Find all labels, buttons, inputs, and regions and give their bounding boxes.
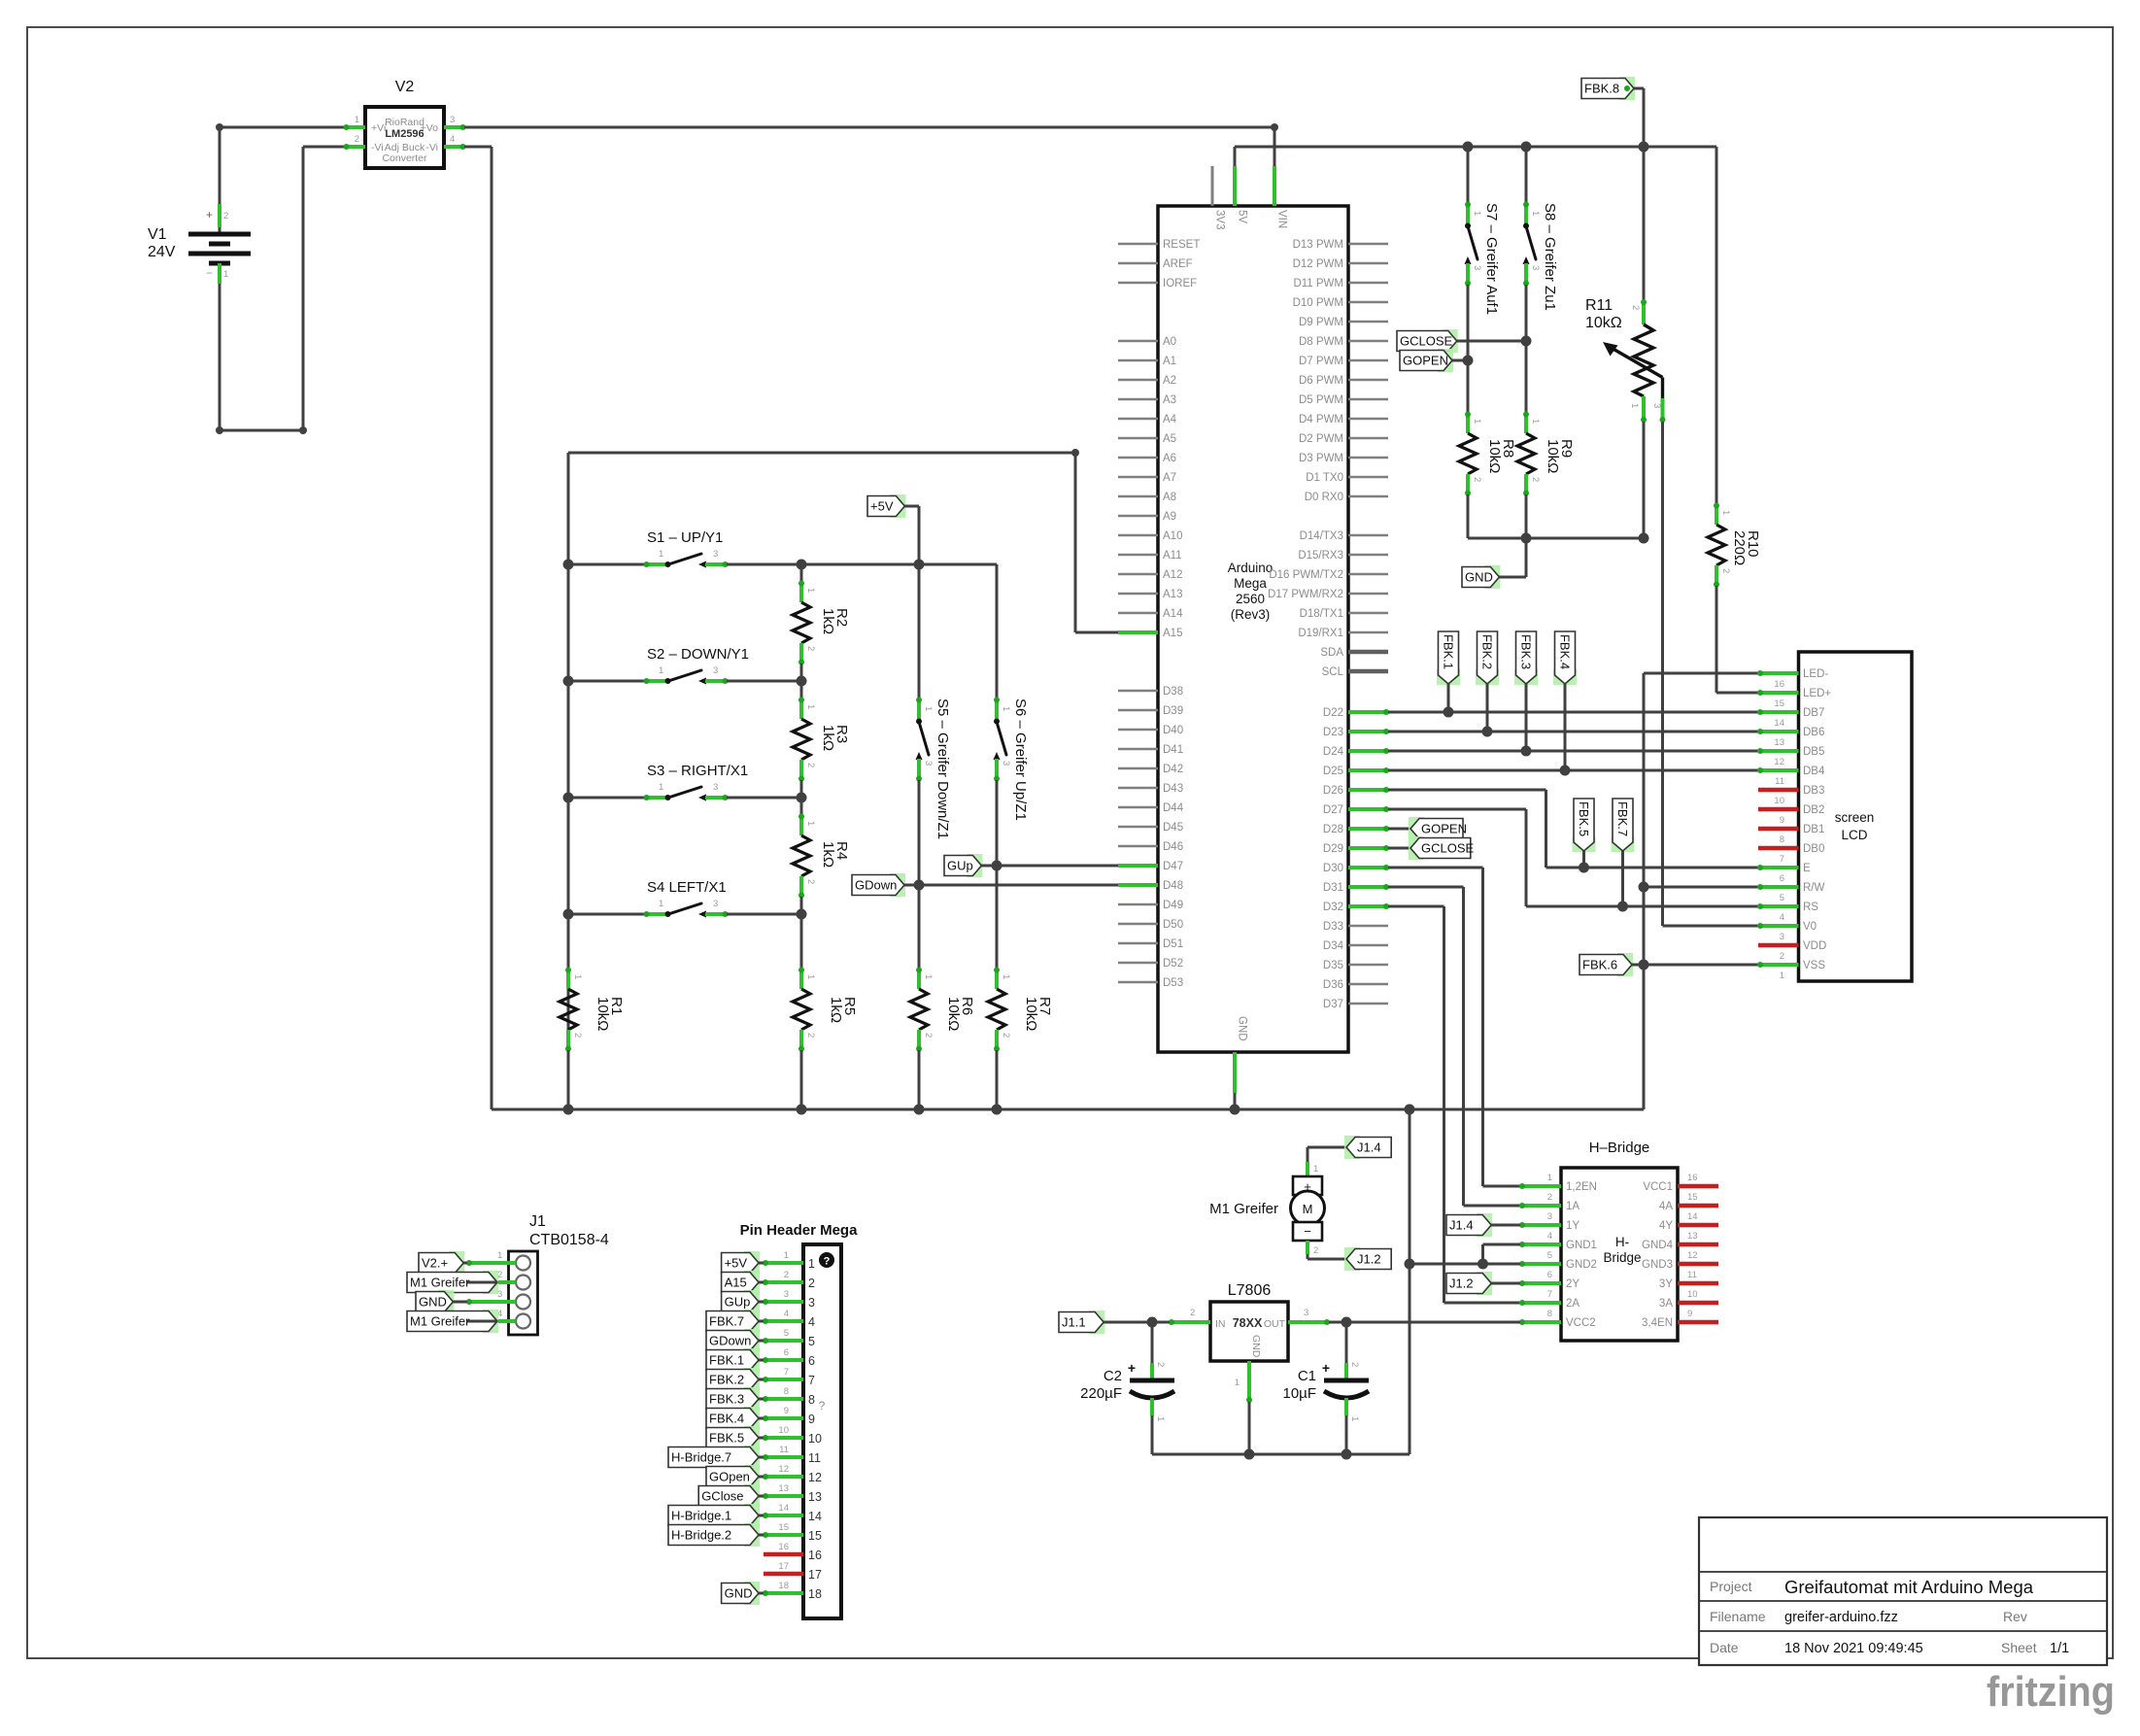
- Pin Header pin 3 GUp: [722, 1289, 815, 1313]
- svg-text:1: 1: [784, 1250, 789, 1261]
- svg-text:V2: V2: [395, 79, 415, 95]
- svg-text:2Y: 2Y: [1566, 1278, 1580, 1290]
- svg-text:D2 PWM: D2 PWM: [1299, 433, 1343, 445]
- svg-text:11: 11: [1775, 776, 1784, 787]
- svg-text:3: 3: [1472, 265, 1482, 270]
- switch S3 - RIGHT/X1: [563, 763, 807, 803]
- wire D32 to H-Bridge 2A: [1388, 906, 1520, 1303]
- resistor R10 220: [1708, 147, 1761, 588]
- svg-text:15: 15: [1687, 1192, 1698, 1203]
- svg-text:A5: A5: [1163, 433, 1176, 445]
- svg-text:DB7: DB7: [1803, 707, 1824, 719]
- Arduino pin A9: [1118, 511, 1176, 523]
- H-Bridge pin 7 2A: [1519, 1289, 1580, 1310]
- H-Bridge pin 5 GND2: [1519, 1250, 1597, 1271]
- svg-text:2: 2: [1780, 951, 1784, 962]
- svg-text:D53: D53: [1163, 977, 1183, 989]
- svg-text:11: 11: [808, 1451, 821, 1465]
- svg-text:FBK.5: FBK.5: [1577, 801, 1591, 836]
- Pin Header pin 16: [764, 1542, 822, 1562]
- svg-text:A4: A4: [1163, 414, 1177, 425]
- net label FBK.5: [1573, 799, 1596, 868]
- H-Bridge pin 8 VCC2: [1519, 1309, 1596, 1329]
- svg-text:3: 3: [713, 549, 718, 560]
- svg-text:A8: A8: [1163, 492, 1176, 503]
- svg-text:2: 2: [1349, 1362, 1360, 1367]
- Arduino pin D39: [1118, 705, 1183, 717]
- svg-text:1: 1: [1349, 1416, 1360, 1421]
- svg-text:GND: GND: [1465, 570, 1493, 585]
- svg-text:A7: A7: [1163, 472, 1176, 484]
- svg-text:1kΩ: 1kΩ: [820, 608, 836, 634]
- wire GDown junction to Arduino D48: [919, 884, 1118, 887]
- buck converter V2 RioRand LM2596: [324, 79, 485, 168]
- svg-text:M: M: [1303, 1202, 1313, 1216]
- svg-text:6: 6: [1547, 1270, 1552, 1280]
- Arduino pin D27: [1323, 804, 1389, 816]
- svg-text:M1 Greifer: M1 Greifer: [1209, 1201, 1278, 1217]
- svg-text:1: 1: [1720, 510, 1731, 515]
- svg-text:(Rev3): (Rev3): [1231, 607, 1271, 622]
- svg-text:V0: V0: [1803, 921, 1817, 933]
- ground bus wire: [492, 1105, 1644, 1115]
- svg-text:FBK.7: FBK.7: [1615, 801, 1630, 836]
- svg-text:S1 – UP/Y1: S1 – UP/Y1: [647, 529, 723, 546]
- svg-text:3V3: 3V3: [1214, 210, 1226, 229]
- Arduino pin D15/RX3: [1298, 550, 1388, 562]
- svg-text:3: 3: [784, 1289, 789, 1300]
- svg-text:16: 16: [778, 1542, 789, 1552]
- svg-text:18 Nov 2021 09:49:45: 18 Nov 2021 09:49:45: [1784, 1641, 1923, 1656]
- wire GUp junction to Arduino D47: [997, 865, 1118, 868]
- svg-text:2A: 2A: [1566, 1298, 1580, 1310]
- svg-text:D40: D40: [1163, 725, 1183, 736]
- svg-text:?: ?: [819, 1399, 826, 1413]
- Arduino pin D7 PWM: [1299, 356, 1388, 367]
- svg-text:D22: D22: [1323, 707, 1343, 719]
- svg-text:IN: IN: [1215, 1318, 1226, 1330]
- svg-text:16: 16: [808, 1549, 822, 1562]
- svg-text:S3 – RIGHT/X1: S3 – RIGHT/X1: [647, 763, 748, 779]
- svg-text:24V: 24V: [148, 244, 176, 260]
- svg-text:D11 PWM: D11 PWM: [1293, 278, 1343, 289]
- resistor R4 1k: [793, 798, 850, 914]
- svg-text:FBK.6: FBK.6: [1582, 958, 1617, 972]
- svg-text:8: 8: [1780, 834, 1784, 845]
- Arduino pin A14: [1118, 608, 1183, 620]
- svg-text:2: 2: [1313, 1245, 1318, 1256]
- Arduino pin A15: [1118, 628, 1182, 639]
- svg-text:RioRand: RioRand: [385, 117, 425, 128]
- svg-text:3A: 3A: [1659, 1298, 1673, 1310]
- Arduino pin A0: [1118, 336, 1176, 348]
- resistor R6 10k: [910, 968, 975, 1110]
- wire battery plus to V2 +Vi: [216, 123, 324, 131]
- Arduino pin D13 PWM: [1293, 239, 1388, 251]
- svg-text:GND2: GND2: [1566, 1259, 1597, 1271]
- Arduino pin D50: [1118, 919, 1183, 931]
- Arduino pin D42: [1118, 764, 1183, 775]
- net label GCLOSE (D29): [1388, 836, 1475, 860]
- svg-text:greifer-arduino.fzz: greifer-arduino.fzz: [1784, 1610, 1898, 1625]
- svg-text:3: 3: [1530, 265, 1541, 270]
- svg-text:D49: D49: [1163, 900, 1183, 911]
- wire 5V rail from Arduino 5V to R10: [1235, 142, 1716, 167]
- svg-text:D31: D31: [1323, 882, 1343, 894]
- Arduino pin D34: [1323, 940, 1388, 952]
- svg-text:J1.1: J1.1: [1062, 1315, 1086, 1330]
- svg-text:AREF: AREF: [1163, 258, 1193, 270]
- switch S5 - Greifer Down/Z1: [916, 564, 952, 839]
- Arduino pin D14/TX3: [1300, 530, 1388, 542]
- wire S7 to GOPEN junction and R8: [1463, 285, 1474, 413]
- svg-text:J1: J1: [529, 1213, 546, 1230]
- H-Bridge pin 13 GND4: [1642, 1231, 1718, 1251]
- svg-text:3: 3: [713, 782, 718, 793]
- Arduino pin D40: [1118, 725, 1183, 736]
- wire LCD LED- to ground chain: [1639, 673, 1759, 1109]
- svg-text:V2.+: V2.+: [422, 1256, 448, 1271]
- connector J1 CTB0158-4: [466, 1213, 609, 1335]
- Arduino pin D8 PWM: [1299, 336, 1388, 348]
- svg-text:1: 1: [923, 974, 934, 979]
- svg-text:1: 1: [1235, 1378, 1240, 1388]
- svg-text:LED-: LED-: [1803, 668, 1828, 680]
- svg-text:+5V: +5V: [870, 499, 894, 514]
- svg-text:4: 4: [1547, 1231, 1552, 1242]
- svg-text:GND1: GND1: [1566, 1240, 1597, 1251]
- svg-text:220Ω: 220Ω: [1731, 530, 1748, 565]
- svg-text:1: 1: [805, 821, 816, 826]
- voltage regulator L7806: [1169, 1282, 1330, 1403]
- svg-text:2: 2: [805, 646, 816, 651]
- svg-text:VDD: VDD: [1803, 940, 1826, 952]
- Pin Header pin 8 FBK.3: [706, 1386, 815, 1411]
- LCD screen box: [1799, 652, 1913, 981]
- Pin Header pin 18 GND: [722, 1581, 822, 1605]
- svg-text:J1.2: J1.2: [1357, 1252, 1381, 1267]
- svg-text:D24: D24: [1323, 746, 1344, 758]
- svg-text:RESET: RESET: [1163, 239, 1200, 251]
- Arduino pin D1 TX0: [1306, 472, 1388, 484]
- svg-text:D19/RX1: D19/RX1: [1298, 628, 1343, 639]
- svg-text:S7 – Greifer Auf1: S7 – Greifer Auf1: [1483, 203, 1500, 315]
- Arduino pin D22: [1323, 707, 1389, 719]
- svg-text:13: 13: [778, 1483, 789, 1494]
- Arduino pin D35: [1323, 960, 1388, 971]
- svg-text:D43: D43: [1163, 783, 1183, 795]
- Pin Header pin 9 FBK.4: [706, 1406, 815, 1430]
- svg-text:RS: RS: [1803, 902, 1818, 913]
- svg-text:D16 PWM/TX2: D16 PWM/TX2: [1269, 569, 1343, 581]
- svg-text:GND: GND: [1237, 1016, 1248, 1041]
- svg-text:A12: A12: [1163, 569, 1182, 581]
- svg-text:1,2EN: 1,2EN: [1566, 1181, 1597, 1193]
- resistor R1 10k: [560, 914, 625, 1109]
- net label GUp: [944, 854, 997, 877]
- svg-text:A3: A3: [1163, 394, 1176, 406]
- svg-text:C2: C2: [1104, 1368, 1122, 1384]
- svg-text:3Y: 3Y: [1659, 1278, 1673, 1290]
- H-Bridge pin 11 3Y: [1659, 1270, 1718, 1290]
- wire R11 pin1 to bottom node: [1643, 422, 1646, 538]
- LCD pin 4 RS: [1757, 902, 1818, 923]
- svg-text:FBK.5: FBK.5: [709, 1431, 744, 1446]
- svg-text:Mega: Mega: [1234, 576, 1267, 591]
- svg-text:10kΩ: 10kΩ: [1023, 997, 1039, 1031]
- net label J1.4 (1Y): [1446, 1213, 1520, 1237]
- Arduino pin A3: [1118, 394, 1176, 406]
- Arduino pin D37: [1323, 999, 1388, 1010]
- svg-text:FBK.2: FBK.2: [709, 1373, 744, 1387]
- svg-text:2: 2: [1720, 568, 1731, 573]
- Pin Header pin 17: [764, 1561, 822, 1582]
- svg-text:D37: D37: [1323, 999, 1343, 1010]
- Arduino pin D44: [1118, 802, 1184, 814]
- svg-text:M1 Greifer: M1 Greifer: [410, 1314, 470, 1329]
- LCD pin 2 VDD: [1758, 940, 1826, 962]
- svg-text:D30: D30: [1323, 863, 1343, 874]
- Arduino pin A7: [1118, 472, 1176, 484]
- svg-text:GOpen: GOpen: [709, 1470, 750, 1484]
- svg-text:A2: A2: [1163, 375, 1176, 387]
- svg-text:?: ?: [824, 1256, 831, 1268]
- Arduino pin D51: [1118, 938, 1183, 950]
- svg-text:220µF: 220µF: [1080, 1385, 1122, 1402]
- svg-text:FBK.1: FBK.1: [1441, 634, 1455, 669]
- svg-text:5V: 5V: [1237, 210, 1248, 223]
- svg-text:Arduino: Arduino: [1228, 561, 1274, 575]
- svg-text:H-Bridge.1: H-Bridge.1: [671, 1509, 731, 1523]
- wire D24 to LCD DB5: [1388, 746, 1758, 757]
- svg-text:D38: D38: [1163, 686, 1183, 698]
- Arduino pin D38: [1118, 686, 1183, 698]
- svg-text:FBK.4: FBK.4: [1557, 634, 1572, 669]
- svg-text:VCC2: VCC2: [1566, 1317, 1596, 1329]
- svg-text:14: 14: [778, 1503, 789, 1514]
- wire R8 R9 R11 bottom node: [1468, 494, 1649, 577]
- svg-text:R/W: R/W: [1803, 882, 1825, 894]
- svg-text:2: 2: [1547, 1192, 1552, 1203]
- wire D22 to LCD DB7: [1388, 707, 1758, 718]
- H-Bridge box: [1561, 1140, 1678, 1341]
- switch S4 LEFT/X1: [563, 879, 807, 920]
- Arduino pin D12 PWM: [1293, 258, 1388, 270]
- switch S8 - Greifer Zu1: [1523, 147, 1559, 311]
- svg-text:1A: 1A: [1566, 1201, 1580, 1212]
- svg-text:D39: D39: [1163, 705, 1183, 717]
- svg-text:2: 2: [923, 1033, 934, 1038]
- svg-text:12: 12: [1687, 1250, 1698, 1261]
- svg-text:10kΩ: 10kΩ: [1585, 315, 1622, 331]
- Arduino pin D19/RX1: [1298, 628, 1388, 639]
- svg-text:LM2596: LM2596: [385, 128, 424, 140]
- svg-text:Date: Date: [1710, 1640, 1739, 1655]
- svg-text:Filename: Filename: [1710, 1609, 1766, 1624]
- svg-text:H-Bridge.2: H-Bridge.2: [671, 1528, 731, 1543]
- svg-text:15: 15: [1774, 698, 1784, 709]
- svg-text:GND: GND: [725, 1586, 753, 1601]
- svg-text:5: 5: [1547, 1250, 1552, 1261]
- svg-text:1: 1: [1629, 403, 1640, 408]
- Arduino pin A6: [1118, 453, 1176, 464]
- svg-text:1kΩ: 1kΩ: [820, 841, 836, 868]
- svg-text:D35: D35: [1323, 960, 1343, 971]
- svg-text:DB0: DB0: [1803, 843, 1824, 855]
- Arduino pin A2: [1118, 375, 1176, 387]
- wire D30 to H-Bridge 1,2EN: [1388, 868, 1520, 1186]
- svg-text:Greifautomat mit Arduino Mega: Greifautomat mit Arduino Mega: [1784, 1577, 2034, 1597]
- svg-text:2: 2: [223, 211, 228, 221]
- Pin Header pin 1 +5V: [722, 1250, 815, 1275]
- Arduino pin D32: [1323, 902, 1389, 913]
- svg-text:GCLOSE: GCLOSE: [1400, 334, 1453, 349]
- svg-text:1: 1: [223, 269, 228, 280]
- svg-text:1: 1: [1313, 1164, 1318, 1174]
- svg-text:3: 3: [450, 115, 455, 125]
- potentiometer R11 10k: [1585, 147, 1666, 423]
- svg-text:1: 1: [659, 899, 663, 909]
- LCD pin 10 DB3: [1758, 785, 1824, 806]
- svg-text:6: 6: [784, 1347, 789, 1358]
- svg-text:A6: A6: [1163, 453, 1176, 464]
- svg-text:D14/TX3: D14/TX3: [1300, 530, 1343, 542]
- net label GDown: [852, 873, 919, 897]
- svg-text:1: 1: [1530, 211, 1541, 216]
- Arduino pin D9 PWM: [1299, 317, 1388, 328]
- wire S8 to GCLOSE junction and R9: [1521, 285, 1532, 413]
- svg-text:+: +: [206, 208, 213, 221]
- svg-text:2: 2: [1001, 1033, 1011, 1038]
- Arduino pin D6 PWM: [1299, 375, 1388, 387]
- net label FBK.6: [1580, 953, 1644, 976]
- svg-text:DB2: DB2: [1803, 804, 1824, 816]
- svg-text:GClose: GClose: [701, 1489, 743, 1504]
- resistor R8 10k: [1459, 412, 1516, 496]
- LCD pin 13 DB6: [1757, 727, 1824, 748]
- svg-text:10kΩ: 10kΩ: [1486, 439, 1503, 473]
- svg-text:VSS: VSS: [1803, 960, 1825, 971]
- svg-text:16: 16: [1774, 679, 1784, 690]
- LCD pin 14 DB7: [1757, 707, 1824, 729]
- svg-text:FBK.8: FBK.8: [1584, 82, 1619, 96]
- svg-text:10: 10: [808, 1432, 822, 1446]
- svg-text:GOPEN: GOPEN: [1403, 354, 1448, 368]
- svg-text:D12 PWM: D12 PWM: [1293, 258, 1343, 270]
- svg-text:FBK.3: FBK.3: [1518, 634, 1533, 669]
- svg-text:D48: D48: [1163, 880, 1183, 892]
- svg-text:D45: D45: [1163, 822, 1183, 834]
- svg-text:H-Bridge.7: H-Bridge.7: [671, 1450, 731, 1465]
- H-Bridge pin 16 VCC1: [1643, 1173, 1718, 1193]
- wire D25 to LCD DB4: [1388, 766, 1758, 776]
- svg-text:1kΩ: 1kΩ: [820, 725, 836, 751]
- Arduino pin SCL: [1322, 666, 1388, 678]
- Arduino pin D49: [1118, 900, 1183, 911]
- switch S6 - Greifer Up/Z1: [994, 698, 1030, 821]
- H-Bridge pin 2 1A: [1519, 1192, 1580, 1212]
- svg-text:9: 9: [808, 1413, 815, 1426]
- Arduino pin RESET: [1118, 239, 1200, 251]
- Arduino pin D33: [1323, 921, 1388, 933]
- svg-text:10kΩ: 10kΩ: [945, 997, 962, 1031]
- net label M1 Greifer (J1 pin2): [407, 1271, 498, 1294]
- capacitor C2 220uF: [1080, 1322, 1174, 1454]
- H-Bridge pin 3 1Y: [1519, 1211, 1580, 1232]
- svg-text:7: 7: [1780, 854, 1784, 865]
- svg-text:5: 5: [1780, 893, 1784, 903]
- svg-text:1: 1: [1472, 211, 1482, 216]
- svg-text:6: 6: [808, 1354, 815, 1368]
- Arduino pin D53: [1118, 977, 1183, 989]
- svg-text:FBK.2: FBK.2: [1479, 634, 1494, 669]
- svg-text:78XX: 78XX: [1233, 1316, 1263, 1330]
- svg-text:3,4EN: 3,4EN: [1642, 1317, 1673, 1329]
- net label J1.2 (2Y): [1446, 1272, 1520, 1295]
- svg-text:11: 11: [779, 1445, 789, 1455]
- svg-text:−: −: [206, 266, 213, 280]
- Arduino pin D10 PWM: [1293, 297, 1388, 309]
- svg-text:D18/TX1: D18/TX1: [1300, 608, 1343, 620]
- svg-text:GND: GND: [1250, 1335, 1262, 1358]
- svg-text:A13: A13: [1163, 589, 1182, 600]
- LCD pin 16 LED-: [1757, 668, 1828, 690]
- resistor R9 10k: [1517, 412, 1575, 496]
- svg-text:8: 8: [784, 1386, 789, 1397]
- wire S6 to GUp junction and R7: [992, 780, 1002, 969]
- svg-text:D46: D46: [1163, 841, 1183, 853]
- Arduino pin A5: [1118, 433, 1176, 445]
- Pin Header pin 12 GOpen: [706, 1464, 822, 1488]
- svg-text:D52: D52: [1163, 958, 1183, 970]
- svg-text:7: 7: [784, 1367, 789, 1378]
- svg-text:4Y: 4Y: [1659, 1220, 1673, 1232]
- svg-text:A0: A0: [1163, 336, 1176, 348]
- svg-text:4: 4: [784, 1309, 789, 1319]
- svg-text:16: 16: [1687, 1173, 1698, 1183]
- svg-text:7: 7: [1547, 1289, 1552, 1300]
- svg-text:D3 PWM: D3 PWM: [1299, 453, 1343, 464]
- svg-text:2: 2: [572, 1033, 583, 1038]
- wire Arduino GND to ground bus: [1234, 1093, 1237, 1109]
- svg-text:2: 2: [805, 879, 816, 884]
- svg-text:D4 PWM: D4 PWM: [1299, 414, 1343, 425]
- net label M1 Greifer (J1 pin4): [407, 1310, 498, 1333]
- svg-text:E: E: [1803, 863, 1811, 874]
- svg-text:IOREF: IOREF: [1163, 278, 1197, 289]
- svg-text:4: 4: [450, 134, 455, 145]
- Arduino Mega 2560 box: [1158, 206, 1348, 1052]
- net label FBK.8: [1581, 77, 1644, 147]
- Arduino pin D23: [1323, 727, 1389, 738]
- Arduino pin D29: [1323, 843, 1389, 855]
- svg-text:J1.2: J1.2: [1449, 1276, 1474, 1291]
- svg-text:9: 9: [1687, 1309, 1692, 1319]
- svg-text:C1: C1: [1298, 1368, 1316, 1384]
- svg-text:LCD: LCD: [1841, 828, 1867, 842]
- svg-text:D42: D42: [1163, 764, 1183, 775]
- battery V1 24V: [148, 127, 251, 430]
- svg-text:+Vi: +Vi: [371, 122, 386, 134]
- wire R11 wiper to LCD V0: [1663, 422, 1759, 926]
- svg-text:1kΩ: 1kΩ: [828, 997, 844, 1023]
- motor M1 Greifer: [1209, 1147, 1324, 1259]
- LCD pin 1 VSS: [1757, 960, 1825, 981]
- svg-text:18: 18: [808, 1587, 822, 1601]
- wire D23 to LCD DB6: [1388, 727, 1758, 737]
- H-Bridge pin 10 3A: [1659, 1289, 1718, 1310]
- svg-text:S5 – Greifer Down/Z1: S5 – Greifer Down/Z1: [934, 698, 951, 839]
